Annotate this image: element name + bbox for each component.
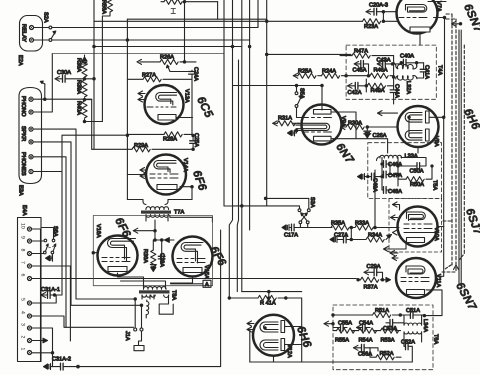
svg-text:J1A: J1A bbox=[124, 331, 130, 341]
vertical x127.4 bbox=[126, 19, 128, 199]
line y63 to S5A bbox=[180, 61, 196, 63]
junction bbox=[443, 116, 445, 118]
svg-text:C30A: C30A bbox=[57, 70, 71, 76]
connector E3A bbox=[19, 88, 42, 184]
internal connections bbox=[333, 314, 350, 316]
svg-text:E3A: E3A bbox=[18, 185, 24, 196]
junction bbox=[183, 1, 185, 3]
svg-text:V11A: V11A bbox=[435, 274, 441, 288]
svg-text:R54A: R54A bbox=[359, 337, 373, 343]
svg-text:R52A: R52A bbox=[380, 351, 394, 357]
svg-text:V15A: V15A bbox=[203, 265, 209, 279]
svg-text:2: 2 bbox=[20, 336, 26, 339]
svg-text:R51A: R51A bbox=[375, 308, 389, 314]
svg-text:5: 5 bbox=[20, 298, 26, 301]
wire terminal5 bbox=[32, 295, 57, 303]
V10A shield dashed box bbox=[389, 198, 442, 252]
tube V7A (6SN7 a) bbox=[397, 0, 438, 34]
junction bbox=[231, 45, 233, 47]
svg-text:T7A: T7A bbox=[174, 210, 185, 216]
wire bbox=[458, 30, 460, 285]
svg-text:4: 4 bbox=[20, 311, 26, 314]
svg-text:V8A: V8A bbox=[433, 136, 439, 147]
J1A jack bbox=[142, 295, 154, 299]
wire bbox=[443, 117, 445, 226]
wire terminal7 bbox=[32, 266, 71, 341]
svg-text:C43A: C43A bbox=[377, 57, 391, 63]
junction bbox=[295, 84, 297, 86]
line y205.9 to S3A bbox=[233, 206, 300, 209]
top right wire over tube bbox=[428, 1, 446, 3]
top resistor line y1.7 bbox=[161, 1, 164, 3]
wire bbox=[460, 30, 462, 285]
svg-text:V12A: V12A bbox=[286, 344, 292, 358]
junction bbox=[228, 297, 230, 299]
svg-text:C42A: C42A bbox=[348, 90, 362, 96]
T4A dashed box bbox=[346, 45, 436, 99]
svg-text:R38A: R38A bbox=[76, 58, 82, 72]
top resistor bbox=[164, 0, 182, 4]
junction bbox=[268, 290, 270, 292]
wire spkr2 to T8A bbox=[33, 142, 141, 305]
resistor R40A (vertical) bbox=[84, 98, 86, 101]
resistor R38A (vertical) + ground arrow bbox=[82, 57, 88, 64]
svg-text:L34A: L34A bbox=[422, 319, 428, 332]
svg-text:R37A: R37A bbox=[364, 284, 378, 290]
svg-text:V16A: V16A bbox=[95, 224, 101, 238]
T5A dashed box bbox=[368, 143, 442, 199]
tube V13A (6C5) bbox=[145, 85, 184, 124]
svg-text:S2A: S2A bbox=[43, 12, 49, 23]
svg-text:V14A: V14A bbox=[182, 158, 188, 172]
resistor R56A vertical top bbox=[107, 0, 112, 12]
svg-text:C25A: C25A bbox=[193, 133, 199, 147]
wire bbox=[296, 86, 298, 92]
svg-text:PHONES: PHONES bbox=[20, 152, 26, 176]
svg-text:R46A: R46A bbox=[374, 68, 388, 74]
wire terminal2 arrow bbox=[32, 340, 44, 342]
transformer T4A primary winding bbox=[396, 64, 417, 68]
svg-text:R56A: R56A bbox=[101, 0, 107, 14]
wire bbox=[268, 292, 270, 298]
junction bbox=[266, 20, 268, 22]
bottom bus from C31A-2 bbox=[78, 230, 221, 367]
svg-text:V13A: V13A bbox=[184, 89, 190, 103]
wire phones2 up to grid line bbox=[33, 135, 127, 171]
wire bbox=[233, 85, 323, 87]
preamp box top edge bbox=[52, 53, 223, 55]
svg-text:C20A-3: C20A-3 bbox=[369, 3, 388, 9]
svg-text:1: 1 bbox=[20, 348, 26, 351]
junction bbox=[266, 53, 268, 55]
junction bbox=[443, 16, 445, 18]
resistor R28A bbox=[127, 133, 164, 135]
svg-text:RELAY: RELAY bbox=[21, 24, 27, 42]
line y46.5 bbox=[94, 46, 242, 48]
junction bbox=[44, 98, 46, 100]
wire bbox=[446, 19, 456, 272]
relay E2A bbox=[20, 16, 43, 52]
junction bbox=[248, 45, 250, 47]
push-pull enclosure box bbox=[93, 216, 212, 286]
svg-text:T5A: T5A bbox=[432, 180, 438, 191]
wire bbox=[61, 172, 63, 296]
tube V9A (6N7) bbox=[302, 105, 342, 145]
svg-text:SPKR: SPKR bbox=[20, 126, 26, 141]
svg-text:L32A: L32A bbox=[405, 81, 411, 94]
S2A top line y27.3 bbox=[52, 19, 267, 27]
svg-text:C26A: C26A bbox=[373, 133, 387, 139]
svg-text:R40A: R40A bbox=[76, 101, 82, 115]
svg-text:R53A: R53A bbox=[381, 337, 395, 343]
line y198.4 to S3A bbox=[266, 198, 309, 208]
right margin vertical buses bbox=[446, 14, 452, 265]
wire terminal3 bbox=[32, 328, 53, 353]
switch S2A bbox=[34, 27, 49, 29]
tag A bbox=[171, 283, 204, 285]
center vertical buses bbox=[224, 0, 238, 206]
vertical x102.4 from R56A bbox=[102, 12, 110, 122]
svg-text:R28A: R28A bbox=[163, 137, 177, 143]
wire bbox=[463, 45, 465, 255]
svg-text:3: 3 bbox=[20, 323, 26, 326]
svg-text:R39A: R39A bbox=[76, 80, 82, 94]
resistor R39A (vertical) bbox=[84, 78, 86, 80]
wire bbox=[217, 2, 219, 20]
junction bbox=[126, 134, 128, 136]
svg-text:E4A: E4A bbox=[21, 205, 27, 216]
junction bbox=[241, 205, 243, 207]
switch S5A bbox=[295, 92, 298, 95]
tube V10A (6SJ7) bbox=[398, 207, 438, 247]
tube V8A (6H6) bbox=[398, 106, 439, 147]
E4A bus vertical bbox=[40, 229, 42, 362]
tube V16A (6F6) bbox=[98, 236, 138, 276]
wire bbox=[237, 60, 238, 292]
switch S6A bbox=[32, 240, 44, 242]
svg-text:R50A: R50A bbox=[410, 182, 424, 188]
wire terminal10 bbox=[32, 228, 41, 230]
svg-text:C47A: C47A bbox=[388, 173, 402, 179]
vertical winding below T8A bbox=[146, 302, 149, 315]
V12A bottom loop bbox=[250, 361, 412, 363]
wire bbox=[241, 0, 243, 292]
coil L33A bbox=[380, 155, 402, 158]
svg-text:S5A: S5A bbox=[299, 88, 305, 99]
svg-text:C31A-2: C31A-2 bbox=[52, 357, 71, 363]
push-pull grid wires bbox=[133, 230, 155, 232]
wire bbox=[249, 330, 251, 362]
tube V14A (6F6) bbox=[146, 155, 186, 195]
capacitor C49A + ground bbox=[358, 174, 365, 180]
line y291.6 bbox=[242, 291, 302, 293]
wire terminal1 to C31A-2 bbox=[32, 352, 53, 354]
junction bbox=[126, 39, 128, 41]
wire to T6A upper bbox=[286, 298, 302, 362]
junction bbox=[93, 45, 95, 47]
wire terminal6 grid line to V11A bbox=[32, 278, 357, 280]
svg-text:T4A: T4A bbox=[437, 65, 443, 76]
svg-text:8: 8 bbox=[20, 249, 26, 252]
tube V15A (6F6) bbox=[173, 237, 213, 277]
line y54.4 to T4A bbox=[267, 53, 351, 55]
svg-text:C17A: C17A bbox=[284, 233, 298, 239]
junction bbox=[264, 197, 266, 199]
R41A line y298 bbox=[229, 297, 258, 299]
dashed corners right bottom bbox=[442, 271, 455, 273]
svg-text:V10A: V10A bbox=[433, 227, 439, 241]
transformer T4A secondary winding bbox=[396, 76, 417, 80]
T8A right loop bbox=[159, 295, 173, 314]
wire bbox=[229, 0, 232, 298]
line y19.2 bbox=[127, 18, 258, 20]
svg-text:L33A: L33A bbox=[405, 154, 418, 160]
vertical bus x44.8 bbox=[44, 84, 46, 99]
wire bbox=[257, 0, 259, 28]
svg-text:10: 10 bbox=[20, 223, 26, 229]
line to V11A grid arrow bbox=[357, 279, 359, 281]
svg-text:V7A: V7A bbox=[436, 1, 442, 12]
svg-text:A: A bbox=[205, 282, 209, 288]
svg-text:C44A: C44A bbox=[394, 84, 400, 98]
wire bbox=[249, 0, 251, 230]
svg-text:C40A: C40A bbox=[400, 54, 414, 60]
tube V12A (6H6) bbox=[253, 315, 294, 356]
wire spkr1 to T8A bbox=[33, 129, 135, 299]
junction bbox=[285, 297, 287, 299]
svg-text:S6A: S6A bbox=[52, 226, 58, 237]
switch S3A bbox=[298, 209, 301, 212]
T6A dashed box bbox=[333, 305, 433, 370]
wire bbox=[266, 0, 268, 206]
wire bbox=[41, 82, 45, 84]
transformer T8A bbox=[143, 287, 166, 290]
S2A bottom line y39.9 bbox=[52, 39, 250, 41]
wire R39A/R40A junction to phono line bbox=[85, 99, 92, 101]
svg-text:S3A: S3A bbox=[309, 197, 315, 208]
connector E4A bbox=[18, 218, 42, 362]
wire bbox=[444, 18, 446, 118]
wire bbox=[52, 353, 54, 367]
wire phono2 right then up to box corner bbox=[33, 54, 52, 112]
svg-text:R 41A: R 41A bbox=[260, 301, 276, 307]
top horizontal bus y21.3 bbox=[94, 20, 363, 22]
wire terminal4 path bbox=[32, 316, 134, 327]
tube V11A (6SN7 b) bbox=[396, 258, 436, 298]
svg-text:R36A: R36A bbox=[142, 249, 148, 263]
wire phones1 down bbox=[33, 157, 66, 327]
svg-text:E2A: E2A bbox=[17, 55, 23, 66]
svg-text:T6A: T6A bbox=[433, 334, 439, 345]
transformer T7A bbox=[146, 207, 169, 210]
arrow into right bus bbox=[452, 23, 461, 25]
svg-text:9: 9 bbox=[20, 236, 26, 239]
wire phono1 right then down bbox=[33, 99, 91, 149]
svg-text:R55A: R55A bbox=[335, 337, 349, 343]
svg-text:6: 6 bbox=[20, 274, 26, 277]
svg-text:R23A: R23A bbox=[364, 24, 378, 30]
svg-text:7: 7 bbox=[20, 261, 26, 264]
svg-text:C45A: C45A bbox=[353, 68, 367, 74]
svg-text:PHONO: PHONO bbox=[20, 96, 26, 117]
svg-text:T8A: T8A bbox=[171, 290, 177, 301]
vertical bus x94 bbox=[93, 0, 95, 149]
